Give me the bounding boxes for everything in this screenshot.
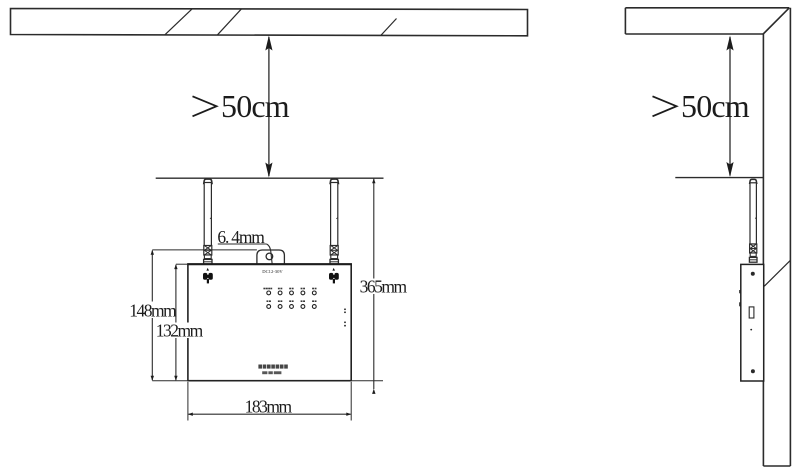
label >50cm (front view)	[193, 96, 217, 116]
ceiling slab (front view)	[11, 9, 528, 36]
dim line 183mm	[188, 413, 351, 416]
ceiling slab (side view)	[625, 8, 789, 34]
panel nameplate text	[258, 365, 287, 369]
label 365mm	[361, 279, 407, 295]
svg-text:50cm: 50cm	[681, 88, 750, 124]
svg-text:365mm: 365mm	[360, 277, 408, 297]
antenna (side view)	[750, 179, 757, 244]
side connector dots on panel	[344, 308, 346, 326]
ceiling hatch marks	[165, 9, 397, 36]
slot (side view)	[749, 307, 754, 318]
screw top (side view)	[751, 272, 755, 276]
antenna left connector (front view)	[204, 246, 212, 265]
LED labels row 2	[267, 300, 317, 302]
svg-text:183mm: 183mm	[245, 396, 293, 416]
label 132mm	[155, 323, 200, 339]
leader line 6.4mm	[218, 244, 273, 266]
device enclosure (side view)	[741, 264, 764, 381]
mounting line (side view)	[675, 177, 763, 179]
clearance arrow >50cm (side view)	[726, 36, 733, 178]
mounting line (front view)	[156, 177, 384, 179]
bottom extension line right	[351, 380, 383, 382]
dim line 365mm	[372, 178, 375, 394]
label >50cm (side view)	[653, 96, 677, 116]
dim 132mm top extension line	[176, 263, 188, 265]
antenna right (front view)	[330, 179, 338, 246]
label 148mm	[129, 302, 174, 319]
antenna right connector (front view)	[330, 246, 338, 265]
LED circles row 1	[267, 291, 316, 295]
svg-text:50cm: 50cm	[221, 88, 290, 124]
svg-text:6. 4mm: 6. 4mm	[217, 227, 265, 247]
LED labels row 1	[263, 288, 316, 290]
clearance arrow >50cm (front view)	[265, 36, 272, 178]
dim line 132mm	[174, 264, 177, 381]
screw bottom (side view)	[751, 369, 755, 373]
LED circles row 2	[267, 305, 316, 309]
mounting bracket with hole	[257, 250, 285, 264]
svg-text:132mm: 132mm	[156, 321, 204, 341]
svg-text:148mm: 148mm	[129, 300, 177, 320]
small hole (side view)	[750, 329, 752, 331]
device enclosure (front view)	[188, 264, 351, 381]
antenna connector (side view)	[749, 244, 757, 262]
dim 183mm extension lines	[187, 382, 189, 421]
svg-text:DC12-30V: DC12-30V	[262, 269, 283, 274]
bottom extension line left	[152, 380, 188, 382]
dim line 148mm	[151, 250, 154, 381]
wall (side view)	[763, 8, 790, 466]
antenna symbol right on panel	[329, 268, 339, 284]
antenna left (front view)	[204, 179, 212, 246]
dim 148mm top extension line	[152, 249, 257, 251]
wall depth diagonal	[764, 260, 790, 286]
edge tabs (side view)	[739, 290, 741, 293]
antenna symbol left on panel	[203, 268, 213, 284]
